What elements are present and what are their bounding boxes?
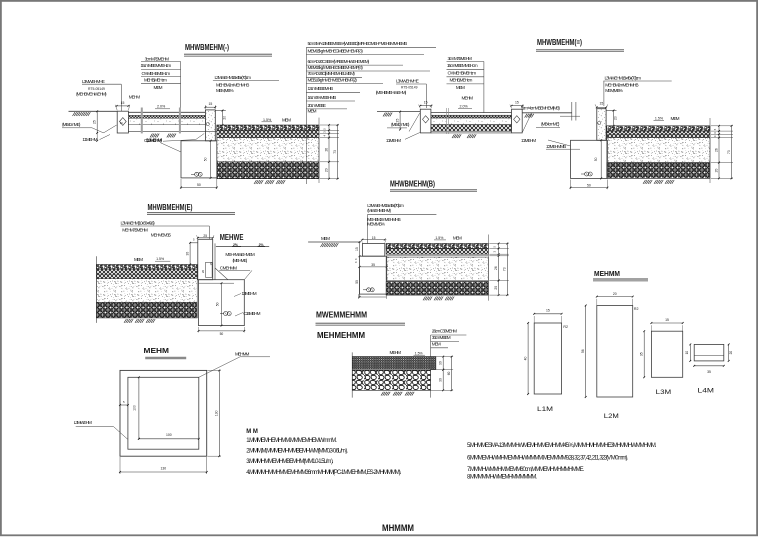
svg-text:3cm M7.5MEHM: 3cm M7.5MEHM	[145, 56, 170, 61]
svg-text:50: 50	[594, 157, 598, 161]
ground line	[69, 110, 118, 112]
svg-text:MEM,MB%: MEM,MB%	[605, 88, 623, 93]
ground line	[308, 241, 361, 243]
svg-text:MEM: MEM	[453, 235, 462, 240]
svg-text:MEB1.0kg/mMEHMBEMHBMP(-2): MEB1.0kg/mMEHMBEMHBMP(-2)	[308, 77, 358, 82]
svg-text:1.5%: 1.5%	[435, 236, 443, 240]
mortar wedge	[409, 113, 420, 132]
curb foundation block	[181, 141, 217, 178]
tree pit inner square	[128, 377, 199, 449]
svg-text:50: 50	[587, 183, 591, 187]
bottom dim 130	[119, 457, 121, 474]
dim 25	[96, 111, 98, 133]
svg-text:MEM: MEM	[456, 85, 465, 90]
foundation width dim 50	[180, 179, 182, 189]
rubble subbase	[96, 302, 197, 318]
svg-text:MEHBM2mMEHMHB: MEHBM2mMEHMHB	[605, 83, 638, 88]
svg-text:30: 30	[439, 361, 443, 365]
road curb stone	[597, 109, 606, 141]
svg-text:MEHM7.5MEHM: MEHM7.5MEHM	[122, 227, 148, 232]
svg-text:MEHMEHMM: MEHMEHMM	[317, 331, 365, 340]
svg-text:MEHM: MEHM	[144, 346, 170, 355]
svg-text:R2: R2	[563, 325, 568, 329]
svg-text:3cm M7.5MEHM: 3cm M7.5MEHM	[448, 56, 473, 61]
left edge	[351, 352, 353, 397]
svg-text:15: 15	[121, 101, 125, 105]
crosshatch binder	[386, 248, 488, 254]
svg-text:MEHWE: MEHWE	[220, 233, 244, 242]
gutter foundation	[360, 256, 387, 294]
svg-text:MEM0.5kg/mMBHEGMBEMHEMP(-3 ): MEM0.5kg/mMBHEGMBEMHEMP(-3 )	[308, 65, 364, 70]
inner dim 100 vertical	[138, 377, 140, 439]
svg-text:1.MMMEMHEMHMM.MMMEMHEMWmmM.: 1.MMMEMHEMHMM.MMMEMHEMWmmM.	[246, 438, 337, 444]
svg-text:40: 40	[524, 357, 528, 361]
left edge	[95, 256, 97, 323]
svg-text:MEM: MEM	[154, 85, 163, 90]
svg-text:C%MEHB MBHcm: C%MEHB MBHcm	[448, 71, 477, 76]
svg-text:50: 50	[215, 302, 219, 306]
svg-text:MEHM: MEHM	[462, 96, 474, 101]
tree pit outer square	[120, 370, 207, 456]
svg-text:100: 100	[132, 405, 136, 411]
svg-text:50: 50	[204, 157, 208, 161]
svg-text:MEHBM2mMEHMHB: MEHBM2mMEHMHB	[216, 83, 249, 88]
svg-text:MEM,MB%: MEM,MB%	[367, 221, 385, 226]
svg-text:(MB4cmME): (MB4cmME)	[391, 122, 410, 127]
mortar wedge	[523, 113, 532, 132]
svg-text:L3MWEHM15x45x(70)cm: L3MWEHM15x45x(70)cm	[605, 75, 642, 80]
left ground step	[190, 242, 198, 244]
svg-text:35: 35	[707, 370, 711, 374]
concrete base	[217, 138, 319, 162]
svg-text:100: 100	[166, 433, 172, 437]
svg-text:56: 56	[581, 349, 585, 353]
island sidewalk surface	[431, 112, 512, 114]
dim 25	[399, 112, 401, 130]
svg-text:L3MWEHM: L3MWEHM	[74, 420, 92, 425]
sidewalk paver layer	[128, 115, 205, 118]
svg-text:C MEHMM: C MEHMM	[220, 265, 237, 270]
svg-text:25: 25	[93, 120, 97, 124]
spec list leader drop	[305, 47, 307, 184]
svg-text:15: 15	[208, 102, 212, 106]
svg-text:1.5%: 1.5%	[263, 118, 272, 122]
svg-text:MEM: MEM	[671, 116, 680, 121]
earth hatch under layers	[254, 180, 263, 184]
ground line	[377, 111, 420, 113]
leader drop	[366, 215, 368, 244]
svg-text:50: 50	[355, 280, 359, 284]
svg-text:15: 15	[355, 247, 359, 251]
svg-text:MEM: MEM	[282, 117, 291, 122]
curb L3	[651, 331, 682, 377]
dim 20 curb reveal	[222, 111, 224, 126]
svg-text:L2M: L2M	[604, 413, 619, 420]
dim 25 top	[197, 235, 198, 238]
layer dims	[318, 118, 320, 183]
svg-text:L4M: L4M	[698, 388, 715, 395]
curb foundation block	[199, 280, 245, 326]
svg-text:25: 25	[396, 119, 400, 123]
crosshatch binder course	[217, 130, 319, 137]
svg-text:MEHM: MEHM	[390, 350, 402, 355]
svg-text:5cm+4cmMBEMHEM(MB): 5cm+4cmMBEMHEM(MB)	[521, 106, 560, 111]
svg-text:(MEHBMEHWEHM): (MEHBMEHWEHM)	[76, 92, 107, 97]
mortar wedge	[104, 125, 117, 133]
svg-text:15: 15	[515, 101, 519, 105]
svg-text:L3MWEHM15x45x(70)cm: L3MWEHM15x45x(70)cm	[215, 75, 252, 80]
asphalt surface course	[217, 125, 319, 130]
svg-text:7cm AD-25C(MMHEMHEL MEM): 7cm AD-25C(MMHEMHEL MEM)	[308, 71, 356, 76]
rubble subbase	[386, 282, 488, 296]
svg-text:35: 35	[371, 263, 375, 267]
svg-text:MHMMM: MHMMM	[382, 523, 414, 533]
svg-text:1:3MEHMMB: 1:3MEHMMB	[546, 144, 566, 149]
svg-text:15: 15	[372, 236, 376, 240]
svg-text:1:1MEHM: 1:1MEHM	[521, 138, 536, 143]
svg-text:MEH+MWEHMEM: MEH+MWEHMEM	[225, 252, 255, 257]
svg-text:MEHMEM3.5: MEHMEM3.5	[151, 233, 172, 238]
svg-text:MEHM: MEHM	[129, 95, 141, 100]
svg-text:15: 15	[665, 318, 669, 322]
svg-text:MHWBMEHM(E): MHWBMEHM(E)	[148, 202, 193, 212]
svg-text:5.MHMMESMA-13MMMHWMEMHMMEMHMM4: 5.MHMMESMA-13MMMHWMEMHMMEMHMM45.%, MMMHM…	[467, 443, 657, 449]
svg-text:20cm MEBE: 20cm MEBE	[308, 103, 326, 108]
concrete base	[607, 138, 710, 163]
svg-text:16cm 5%MEBHMB: 16cm 5%MEBHMB	[308, 95, 337, 100]
svg-text:20: 20	[613, 292, 617, 296]
svg-text:1.5%: 1.5%	[415, 351, 423, 355]
joint double line	[445, 108, 447, 134]
svg-text:35: 35	[640, 352, 644, 356]
svg-text:10: 10	[685, 351, 689, 355]
earth hatch under sidewalk	[150, 134, 159, 138]
svg-text:MEM,MB%: MEM,MB%	[216, 88, 234, 93]
svg-text:MEM: MEM	[134, 257, 143, 262]
curb L4	[694, 344, 724, 361]
median curb stone	[198, 239, 213, 279]
svg-text:26cm C30MEHM: 26cm C30MEHM	[432, 328, 457, 333]
sidewalk surface	[128, 111, 205, 113]
asphalt surface course	[386, 244, 488, 249]
svg-text:30cmMBEM: 30cmMBEM	[432, 335, 451, 340]
svg-text:15: 15	[546, 309, 550, 313]
svg-text:MEHMM: MEHMM	[594, 269, 620, 278]
right dim 130	[208, 369, 222, 371]
svg-text:MEHB,MEHcm: MEHB,MEHcm	[450, 78, 473, 83]
svg-text:MHWBMEHM(-): MHWBMEHM(-)	[185, 42, 229, 52]
svg-text:20: 20	[324, 168, 328, 172]
svg-text:L3M: L3M	[656, 389, 672, 396]
island left curb	[420, 109, 431, 133]
svg-text:(MEHBMEHWEHM): (MEHBMEHWEHM)	[376, 90, 407, 95]
svg-text:1.5%: 1.5%	[156, 257, 164, 261]
concrete base	[96, 279, 197, 303]
svg-text:6cm AD-20C SBS+(MRBEMHWEHE MEM: 6cm AD-20C SBS+(MRBEMHWEHE MEM)	[308, 59, 370, 64]
svg-text:73: 73	[333, 150, 337, 154]
svg-text:1.5%: 1.5%	[655, 117, 664, 121]
concrete slab (grid)	[352, 357, 435, 370]
curb L2	[597, 306, 633, 398]
svg-text:MEM: MEM	[308, 108, 317, 113]
crosshatch binder course	[607, 131, 710, 138]
svg-text:MEM0.5kg/mMBHEGMBEMHEMP(-3 ): MEM0.5kg/mMBHEGMBEMHEMP(-3 )	[308, 49, 364, 54]
svg-text:MEM: MEM	[321, 236, 330, 241]
curb L1	[534, 323, 561, 394]
svg-text:MEHMM: MEHMM	[235, 351, 250, 356]
svg-text:1:3MEHM: 1:3MEHM	[242, 291, 257, 296]
svg-text:MWEMMEHMM: MWEMMEHMM	[316, 310, 367, 319]
asphalt surface course	[96, 265, 197, 270]
svg-text:20: 20	[494, 286, 498, 290]
expansion joints (gray)	[141, 108, 143, 134]
svg-text:R2: R2	[634, 307, 639, 311]
svg-text:C15MEHM: C15MEHM	[243, 311, 260, 316]
svg-text:50: 50	[197, 183, 201, 187]
dim 15 left curb	[115, 105, 117, 110]
road curb stone	[205, 110, 215, 141]
svg-text:26: 26	[324, 148, 328, 152]
svg-text:2.0%: 2.0%	[460, 105, 469, 109]
backing wedge	[215, 268, 228, 280]
svg-text:26: 26	[494, 266, 498, 270]
dowel rect	[206, 262, 213, 277]
svg-text:15cmMBEMMEHcm: 15cmMBEMMEHcm	[447, 63, 478, 68]
svg-text:15: 15	[424, 101, 428, 105]
svg-text:130: 130	[161, 467, 167, 471]
svg-text:26: 26	[714, 148, 718, 152]
svg-text:4.MMMMHMMHMMEMHMM36mmMHMM(PC-1: 4.MMMMHMMHMMEMHMM36mmMHMM(PC-1MMEHMM, ES…	[246, 470, 402, 476]
island concrete cushion crosshatch	[431, 125, 512, 132]
svg-text:RT5-05149: RT5-05149	[88, 87, 105, 91]
svg-text:(MWEHMEHM): (MWEHMEHM)	[367, 208, 391, 213]
stack leader drop	[180, 62, 182, 108]
concrete base	[386, 257, 488, 280]
flat gutter stone	[362, 244, 384, 257]
svg-text:7.MMMHWMMHM.MEMM60cm,MMMEMHMHM: 7.MMMHWMMHM.MEMM60cm,MMMEMHMHMMHMME.	[467, 467, 585, 473]
svg-text:M M: M M	[246, 429, 258, 435]
svg-text:L1M: L1M	[537, 406, 553, 413]
svg-text:6.MMMEMHWMHMEMMHWMMMM.MEMMMM9.: 6.MMMEMHWMHMEMMHWMMMM.MEMMMM9.28, 32, 37…	[467, 455, 628, 461]
svg-text:20: 20	[201, 270, 205, 274]
svg-text:73: 73	[727, 150, 731, 154]
svg-text:13cmMEBEMHB: 13cmMEBEMHB	[308, 86, 334, 91]
svg-text:C15MEHM: C15MEHM	[144, 138, 161, 143]
svg-text:(MEHME): (MEHME)	[233, 258, 248, 263]
svg-text:MHWBMEHM(=): MHWBMEHM(=)	[537, 37, 582, 47]
leader drop	[430, 335, 432, 398]
svg-text:30: 30	[439, 378, 443, 382]
svg-text:1:1MEHM: 1:1MEHM	[82, 137, 97, 142]
svg-text:15cmMBEMMEHcm: 15cmMBEMMEHcm	[141, 63, 172, 68]
island right curb	[512, 109, 523, 133]
svg-text:1:1MEHM: 1:1MEHM	[386, 138, 401, 143]
svg-text:L3MWEHM(10x30x49.6): L3MWEHM(10x30x49.6)	[121, 220, 156, 225]
svg-text:L3MWEHMHE: L3MWEHMHE	[82, 79, 105, 84]
svg-text:20: 20	[714, 169, 718, 173]
svg-text:15: 15	[600, 101, 604, 105]
svg-text:2.0%: 2.0%	[157, 105, 166, 109]
sidewalk base line	[128, 130, 216, 132]
svg-text:8.MMMMMHWMEMHMMMMMM.: 8.MMMMMHWMEMHMMMMMM.	[467, 475, 537, 481]
curb foundation block	[571, 140, 608, 178]
svg-text:(MB4cmME): (MB4cmME)	[541, 121, 560, 126]
svg-text:20: 20	[613, 116, 617, 120]
green belt ground	[216, 246, 269, 248]
macadam layer (big stones)	[352, 370, 430, 390]
svg-text:2.MMM,M,MMMEMHMMBEMHWM(MM0.3-0: 2.MMM,M,MMMEMHMMBEMHWM(MM0.3-0.6L/m ).	[246, 449, 348, 455]
sidewalk cushion	[128, 118, 205, 125]
svg-text:20: 20	[223, 116, 227, 120]
rubble subbase	[217, 162, 319, 179]
svg-text:50: 50	[220, 332, 224, 336]
svg-text:130: 130	[215, 410, 219, 416]
svg-text:3.MMMHMMEMHMBEMHM(MM1.0-1.5L/m: 3.MMMHMMEMHMBEMHM(MM1.0-1.5L/m ).	[246, 459, 334, 465]
left curb stone L3	[117, 111, 128, 133]
svg-text:RT5-05149: RT5-05149	[401, 85, 418, 89]
svg-text:73: 73	[503, 267, 507, 271]
svg-text:MEM: MEM	[432, 342, 441, 347]
dim 15 road curb	[204, 105, 206, 109]
svg-text:20: 20	[729, 351, 733, 355]
svg-text:MHWBMEHM(B): MHWBMEHM(B)	[390, 178, 435, 188]
curb backing line	[214, 243, 216, 279]
svg-text:25: 25	[203, 234, 207, 238]
wall thickness dim	[120, 404, 128, 406]
rubble subbase	[607, 163, 710, 179]
stack leader drop	[483, 62, 485, 113]
asphalt surface course	[607, 126, 710, 131]
svg-text:30: 30	[186, 252, 190, 256]
svg-text:60: 60	[447, 371, 451, 375]
earth hatch	[73, 112, 82, 116]
svg-text:C%MEHB MBHcm: C%MEHB MBHcm	[142, 71, 171, 76]
svg-text:L3MWEHMHE: L3MWEHMHE	[396, 79, 419, 84]
svg-text:5cm SMA-13MBEMSBS+(WEB BD.)MRH: 5cm SMA-13MBEMSBS+(WEB BD.)MRHEGMEHF MEH…	[308, 41, 408, 46]
svg-text:(MB4cmME): (MB4cmME)	[62, 122, 81, 127]
crosshatch binder	[96, 269, 197, 279]
svg-text:15: 15	[209, 262, 213, 265]
svg-text:MEHB,MEHcm: MEHB,MEHcm	[144, 78, 167, 83]
joint lines	[571, 102, 573, 121]
inner dim 100 horizontal	[139, 438, 199, 440]
